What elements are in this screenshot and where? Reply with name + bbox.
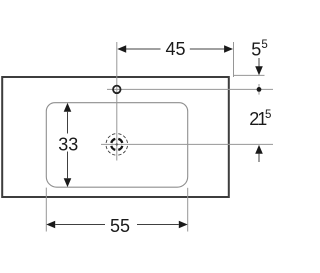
svg-text:55: 55 bbox=[110, 216, 130, 236]
svg-text:33: 33 bbox=[58, 134, 78, 154]
svg-text:45: 45 bbox=[165, 39, 185, 59]
